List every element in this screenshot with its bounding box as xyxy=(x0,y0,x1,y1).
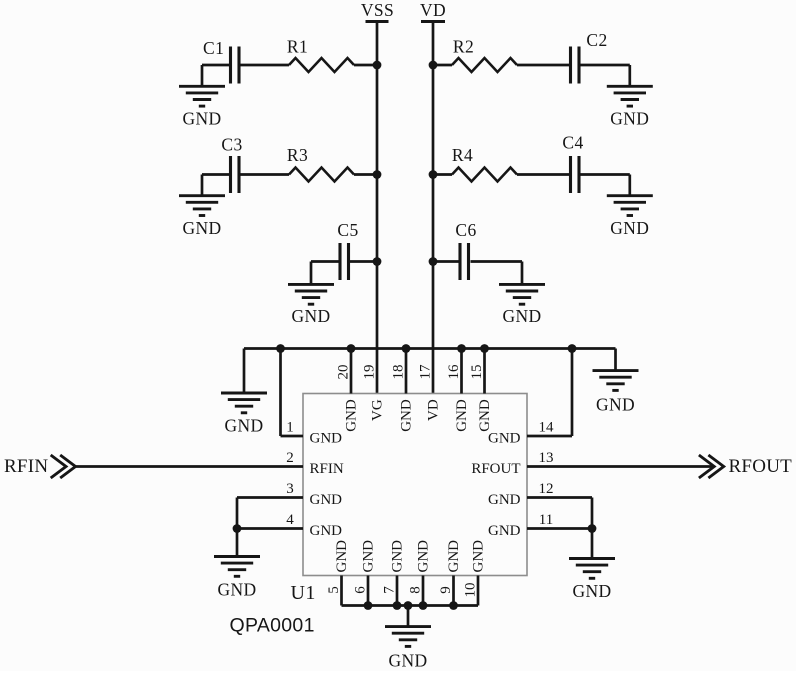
svg-text:GND: GND xyxy=(398,399,414,432)
svg-text:GND: GND xyxy=(488,523,521,539)
node VD/R4 junction xyxy=(429,170,438,179)
svg-text:R4: R4 xyxy=(452,145,473,165)
wire xyxy=(471,262,523,285)
svg-text:16: 16 xyxy=(446,364,462,380)
wire xyxy=(354,64,377,67)
svg-text:GND: GND xyxy=(217,580,256,600)
pin 12 (GND) xyxy=(488,481,592,508)
pin 17 (VD) xyxy=(417,364,441,421)
svg-text:GND: GND xyxy=(224,416,263,436)
capacitor C3 xyxy=(221,135,242,194)
svg-text:6: 6 xyxy=(352,586,368,594)
pin 1 (GND) xyxy=(281,349,343,447)
pin 11 (GND) xyxy=(488,512,592,539)
pin 13 (RFOUT) xyxy=(471,450,713,477)
port RFIN xyxy=(4,455,76,478)
svg-text:VG: VG xyxy=(369,399,385,421)
wire xyxy=(433,173,452,176)
svg-text:R3: R3 xyxy=(287,145,308,165)
wire xyxy=(241,64,290,67)
node VD/C6 junction xyxy=(429,257,438,266)
wire xyxy=(517,173,571,176)
node bus/pin14 riser xyxy=(568,344,577,353)
ground (C2) xyxy=(607,86,653,128)
svg-text:GND: GND xyxy=(446,540,462,573)
svg-text:3: 3 xyxy=(286,481,294,497)
svg-text:15: 15 xyxy=(469,365,485,380)
svg-text:5: 5 xyxy=(326,586,342,594)
pin 19 (VG) xyxy=(361,365,385,421)
node pin3/pin4 junction xyxy=(233,524,242,533)
resistor R1 xyxy=(287,37,354,73)
ground (pins 3-4) xyxy=(214,557,260,600)
wire xyxy=(433,64,452,67)
ground (C6) xyxy=(499,284,545,326)
pin 15 (GND) xyxy=(469,349,493,432)
svg-text:RFOUT: RFOUT xyxy=(729,456,793,477)
ground (bus right) xyxy=(593,371,639,415)
svg-text:GND: GND xyxy=(334,540,350,573)
svg-text:GND: GND xyxy=(360,540,376,573)
wire xyxy=(581,175,630,196)
node VSS/C5 junction xyxy=(373,257,382,266)
svg-text:C3: C3 xyxy=(221,135,242,155)
svg-text:GND: GND xyxy=(610,109,649,129)
pin 4 (GND) xyxy=(237,512,342,539)
wire xyxy=(202,65,231,86)
wire xyxy=(349,260,378,263)
node bottom bus junction xyxy=(419,601,428,610)
node VD/R2 junction xyxy=(429,61,438,70)
wire xyxy=(407,606,410,627)
node VSS/R1 junction xyxy=(373,61,382,70)
wire GND bus xyxy=(244,349,616,394)
svg-text:C5: C5 xyxy=(337,220,358,240)
node VSS/R3 junction xyxy=(373,170,382,179)
svg-text:GND: GND xyxy=(343,399,359,432)
svg-text:GND: GND xyxy=(182,218,221,238)
port RFOUT xyxy=(699,455,792,478)
pin 14 (GND) xyxy=(488,349,572,447)
pin 2 (RFIN) xyxy=(76,450,344,477)
wire xyxy=(241,173,290,176)
wire bottom GND bus xyxy=(342,604,479,607)
pin 7 (GND) xyxy=(381,540,405,606)
svg-text:17: 17 xyxy=(417,364,433,380)
ground (bottom) xyxy=(385,627,431,671)
wire xyxy=(202,175,231,196)
svg-text:C2: C2 xyxy=(586,30,607,50)
ground (pins 11-12) xyxy=(569,559,615,602)
wire xyxy=(591,498,594,559)
ground (bus left) xyxy=(221,393,267,436)
capacitor C2 xyxy=(571,30,608,84)
wire xyxy=(354,173,377,176)
wire xyxy=(517,64,571,67)
svg-text:C1: C1 xyxy=(203,38,224,58)
op-amp U1 (QPA0001 IC body) xyxy=(230,394,528,637)
svg-text:U1: U1 xyxy=(291,582,316,604)
pin 10 (GND) xyxy=(462,540,486,606)
wire xyxy=(311,262,340,285)
wire xyxy=(236,498,239,557)
svg-text:R2: R2 xyxy=(453,37,474,57)
pin 6 (GND) xyxy=(352,540,376,606)
svg-text:GND: GND xyxy=(470,540,486,573)
node bus/pin16 xyxy=(457,344,466,353)
svg-text:GND: GND xyxy=(610,218,649,238)
svg-text:R1: R1 xyxy=(287,37,308,57)
svg-text:QPA0001: QPA0001 xyxy=(230,615,315,637)
svg-text:GND: GND xyxy=(572,581,611,601)
svg-text:18: 18 xyxy=(390,365,406,380)
svg-text:GND: GND xyxy=(454,399,470,432)
svg-text:9: 9 xyxy=(438,586,454,594)
svg-text:1: 1 xyxy=(286,420,294,436)
svg-text:GND: GND xyxy=(310,431,343,447)
svg-text:2: 2 xyxy=(286,450,294,466)
svg-text:RFIN: RFIN xyxy=(310,461,344,477)
node bus/pin20 xyxy=(347,344,356,353)
node bottom bus junction xyxy=(393,601,402,610)
svg-text:19: 19 xyxy=(361,365,377,380)
svg-text:8: 8 xyxy=(407,586,423,594)
capacitor C4 xyxy=(562,133,583,194)
pin 8 (GND) xyxy=(407,540,431,606)
svg-text:VD: VD xyxy=(420,0,446,20)
resistor R2 xyxy=(452,37,517,73)
node bus/pin15 xyxy=(480,344,489,353)
capacitor C6 xyxy=(455,220,476,280)
svg-text:GND: GND xyxy=(502,306,541,326)
svg-text:GND: GND xyxy=(291,306,330,326)
svg-text:GND: GND xyxy=(389,540,405,573)
node bottom bus junction xyxy=(404,601,413,610)
wire xyxy=(581,65,630,86)
svg-text:C4: C4 xyxy=(562,133,583,153)
svg-text:VSS: VSS xyxy=(361,0,394,20)
pin 18 (GND) xyxy=(390,349,414,432)
svg-text:GND: GND xyxy=(596,395,635,415)
pin 9 (GND) xyxy=(438,540,462,606)
svg-text:GND: GND xyxy=(310,523,343,539)
pin 3 (GND) xyxy=(237,481,342,508)
pin 16 (GND) xyxy=(446,349,470,432)
svg-text:VD: VD xyxy=(425,399,441,421)
capacitor C5 xyxy=(337,220,358,280)
resistor R4 xyxy=(452,145,517,182)
svg-text:GND: GND xyxy=(182,109,221,129)
node bus/pin18 xyxy=(402,344,411,353)
node pin12/pin11 junction xyxy=(588,524,597,533)
svg-text:GND: GND xyxy=(310,492,343,508)
svg-text:10: 10 xyxy=(462,583,478,598)
svg-text:11: 11 xyxy=(539,512,553,528)
wire xyxy=(433,260,460,263)
svg-text:GND: GND xyxy=(477,399,493,432)
svg-text:GND: GND xyxy=(488,492,521,508)
power rail VSS xyxy=(361,0,394,394)
svg-text:GND: GND xyxy=(488,431,521,447)
node bottom bus junction xyxy=(449,601,458,610)
ground (C3) xyxy=(179,196,225,238)
capacitor C1 xyxy=(203,38,239,84)
svg-text:7: 7 xyxy=(381,586,397,594)
svg-text:GND: GND xyxy=(415,540,431,573)
svg-text:RFOUT: RFOUT xyxy=(471,461,520,477)
ground (C4) xyxy=(607,196,653,238)
svg-text:12: 12 xyxy=(539,481,554,497)
svg-text:14: 14 xyxy=(539,420,555,436)
ground (C1) xyxy=(179,86,225,128)
svg-text:13: 13 xyxy=(539,450,554,466)
resistor R3 xyxy=(287,145,354,182)
svg-text:C6: C6 xyxy=(455,220,476,240)
ground (C5) xyxy=(288,284,334,326)
svg-text:RFIN: RFIN xyxy=(4,456,48,477)
node bottom bus junction xyxy=(364,601,373,610)
node bus/pin1 riser xyxy=(276,344,285,353)
svg-text:GND: GND xyxy=(388,651,427,671)
power rail VD xyxy=(420,0,446,394)
pin 20 (GND) xyxy=(335,349,359,432)
svg-text:20: 20 xyxy=(335,365,351,380)
svg-text:4: 4 xyxy=(286,512,294,528)
pin 5 (GND) xyxy=(326,540,350,606)
